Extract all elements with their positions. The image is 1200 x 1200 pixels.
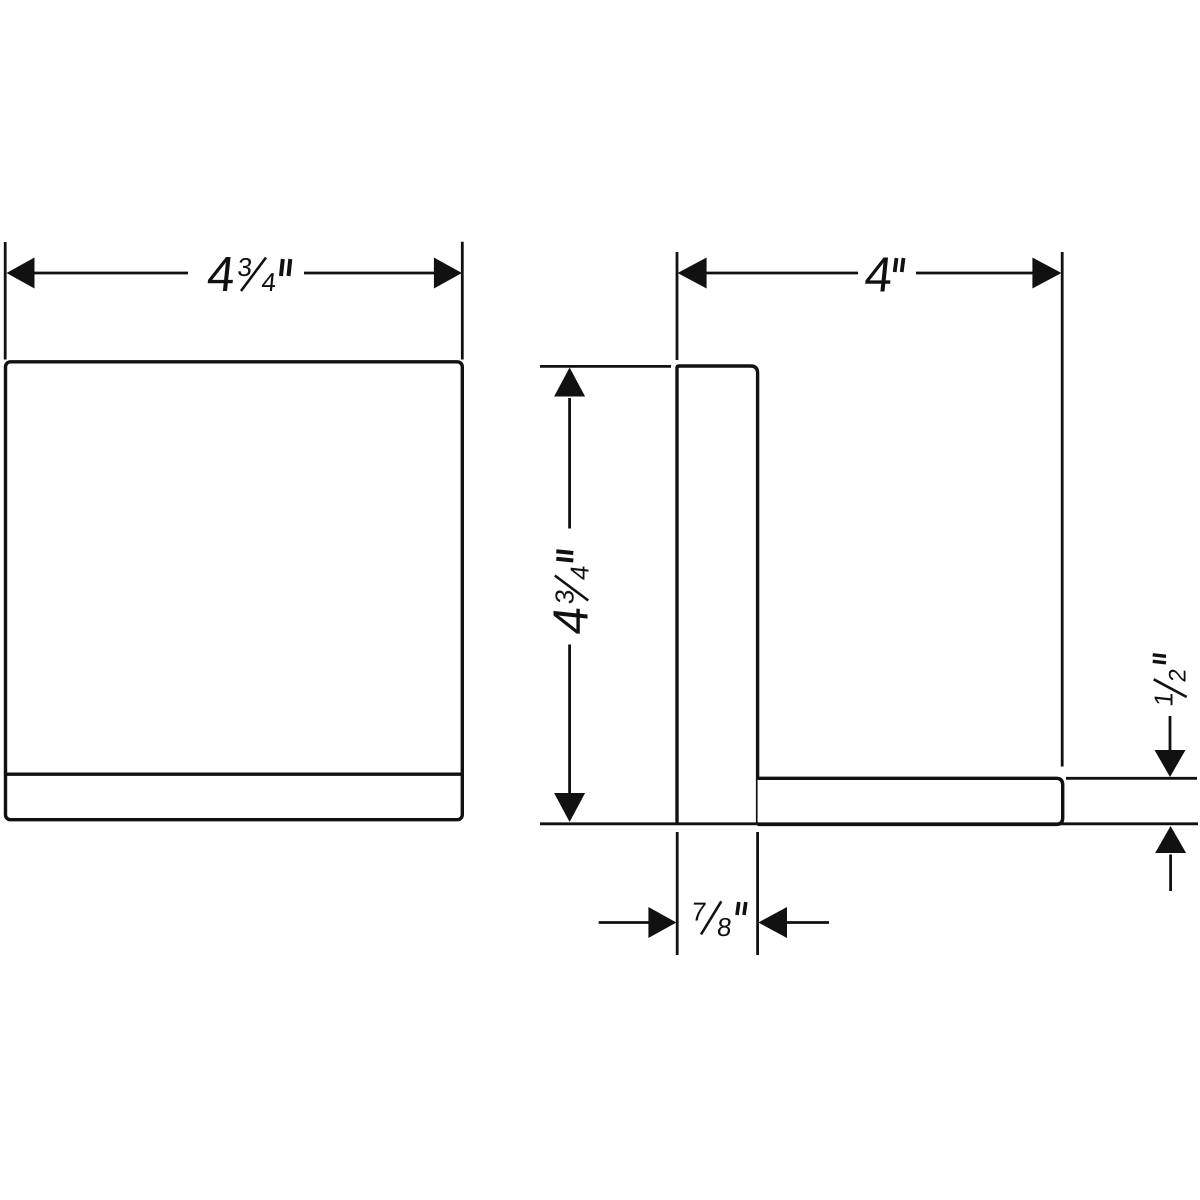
dimension line 4 3/4" right segment [304, 272, 435, 275]
arrowhead down of 4 3/4" height dim [554, 793, 585, 822]
dimension line 4" right segment [916, 272, 1033, 275]
label 7/8" [690, 897, 746, 942]
top tick of 4 3/4" height dim [540, 365, 671, 368]
arrowhead down of 1/2" dim [1155, 750, 1186, 777]
dimension line 4 3/4" height lower segment [568, 645, 571, 794]
svg-text:2: 2 [1164, 667, 1191, 683]
arrowhead left-pointing of 7/8" dim [758, 907, 787, 938]
label 4 3/4" (vertical, rotated) [543, 551, 598, 637]
dimension line 4" left segment [706, 272, 858, 275]
1/2" dim upper stem [1169, 716, 1172, 752]
front bottom rail separator line [6, 773, 463, 776]
arrowhead right of 4 3/4" dim [434, 258, 462, 289]
extension line left (4 3/4" width dim) [4, 242, 7, 360]
7/8" dim left stem [599, 921, 649, 924]
vertical back plate bar [677, 366, 758, 825]
label 4" (horizontal) [862, 248, 903, 303]
arrowhead up of 4 3/4" height dim [554, 368, 585, 397]
svg-text:4: 4 [862, 248, 895, 303]
extension line for 1/2" (upper, right of shelf) [1066, 777, 1197, 780]
dimension line 4 3/4" height upper segment [568, 398, 571, 529]
label 4 3/4" (horizontal) [205, 247, 291, 302]
7/8" dim right stem [787, 921, 829, 924]
arrowhead up of 1/2" dim [1155, 826, 1186, 853]
front plate outline [6, 362, 463, 820]
arrowhead right of 4" dim [1032, 258, 1061, 289]
extension line left (7/8" dim, below baseline) [676, 832, 679, 955]
shelf ledge profile [758, 778, 1063, 824]
arrowhead left of 4" dim [678, 258, 707, 289]
arrowhead right-pointing of 7/8" dim [648, 907, 676, 938]
svg-text:4: 4 [543, 604, 598, 637]
svg-text:4: 4 [205, 247, 238, 302]
extension line right (7/8" dim, below baseline) [756, 832, 759, 955]
label 1/2" (vertical, rotated) [1148, 655, 1191, 708]
extension line right (4 3/4" width dim) [461, 242, 464, 360]
dimension line 4 3/4" left segment [33, 272, 188, 275]
1/2" dim lower stem [1169, 855, 1172, 892]
extension line left (4" dim) [676, 252, 679, 360]
baseline (wall line) [540, 822, 1198, 825]
arrowhead left of 4 3/4" dim [7, 258, 35, 289]
extension line right (4" dim) [1061, 252, 1064, 767]
